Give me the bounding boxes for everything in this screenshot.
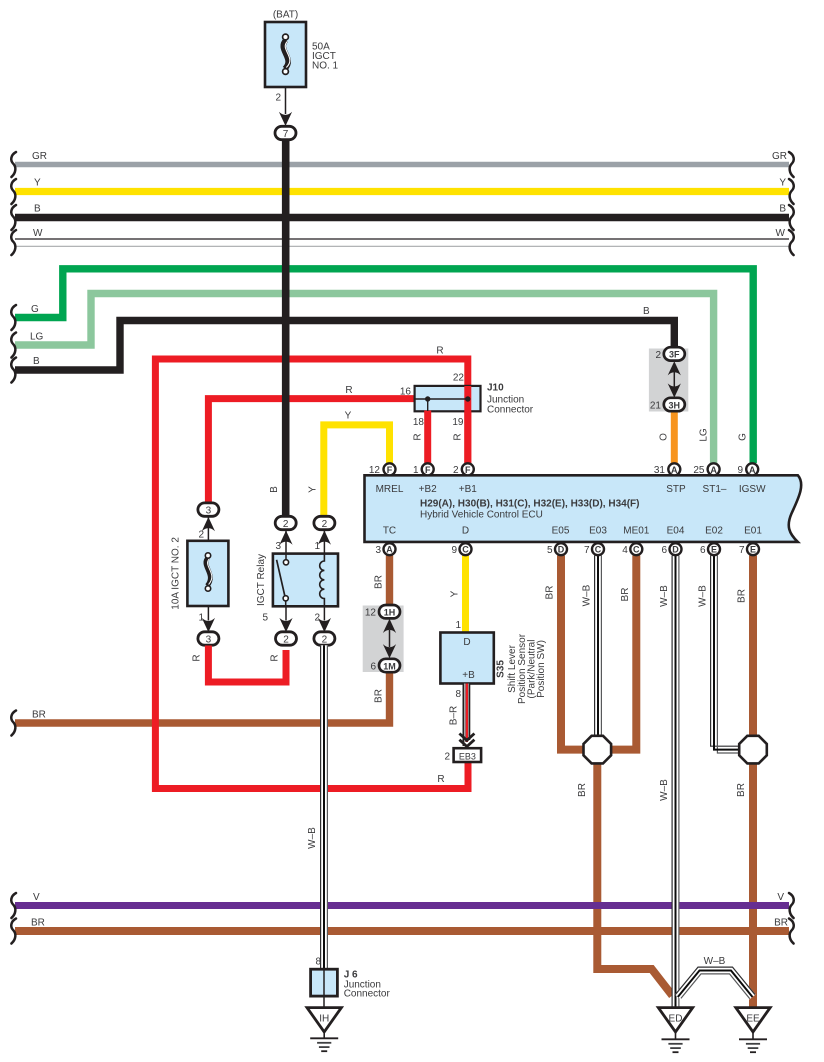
svg-text:V: V [33,892,40,903]
svg-text:IGCT Relay: IGCT Relay [256,554,267,606]
svg-text:3: 3 [206,634,212,645]
pin 1 F +B2 [413,463,434,476]
svg-text:R: R [453,433,464,440]
svg-text:LG: LG [699,428,710,442]
bus B [11,204,793,231]
pin 7 E E01 [739,543,759,556]
svg-text:R: R [413,433,424,440]
svg-text:EB3: EB3 [459,752,476,762]
svg-text:MREL: MREL [376,484,404,495]
svg-text:W: W [776,228,786,239]
svg-text:G: G [738,433,749,441]
wire R to J10 pin 16 [208,399,414,504]
junction connector J6 [311,969,391,1007]
svg-text:Position SW): Position SW) [536,640,547,698]
gray box 3F 3H [649,349,688,412]
svg-text:2: 2 [453,465,459,476]
wire G to IGSW [11,269,753,463]
svg-text:BR: BR [31,918,45,929]
bus V [11,892,793,918]
J10 internal busbar [415,396,471,411]
connector 2 relay pin2 [314,632,335,646]
wire W-B E04 to ED [672,556,679,1009]
svg-text:Y: Y [308,486,319,493]
sensor S35 shift lever position [440,633,547,705]
pin 6 D E04 [661,543,681,556]
wire B from fuse to relay [282,139,290,517]
svg-text:+B: +B [462,670,475,681]
svg-text:A: A [386,545,393,555]
svg-text:6: 6 [700,545,706,556]
svg-text:19: 19 [452,417,464,428]
svg-text:B: B [34,204,41,215]
wire W-B E02 to junction 2 [711,556,740,754]
wire BR TC to 1H [386,556,393,607]
svg-text:2: 2 [275,93,281,104]
wire B to connector 3F [11,306,674,383]
svg-text:W–B: W–B [582,584,593,606]
ECU box H29-H34 [365,475,802,542]
svg-text:Y: Y [34,178,41,189]
wire R jumper fuse to relay [208,646,286,683]
svg-text:IH: IH [319,1014,329,1025]
connector 1H [365,605,400,619]
svg-text:2: 2 [322,634,328,645]
svg-text:W–B: W–B [659,585,670,607]
wire Y D to S35 [462,556,469,633]
svg-text:A: A [710,465,717,475]
connector 3H [650,398,685,412]
svg-text:B–R: B–R [449,706,460,725]
pin 5 D E05 [547,543,567,556]
svg-text:R: R [437,774,444,785]
svg-text:12: 12 [369,465,381,476]
svg-text:ME01: ME01 [623,526,650,537]
svg-text:4: 4 [622,545,628,556]
svg-text:R: R [270,654,281,661]
svg-text:18: 18 [413,417,425,428]
svg-text:R: R [436,346,443,357]
connector 3 lower [198,632,219,646]
svg-text:BR: BR [774,918,788,929]
svg-text:D: D [558,545,565,555]
double chevron arrow [459,734,474,747]
svg-text:E: E [750,545,756,555]
svg-text:C: C [462,545,469,555]
svg-text:+B1: +B1 [459,484,478,495]
wire LG to ST1- [11,294,713,464]
ground IH [307,1008,341,1052]
svg-text:8: 8 [315,957,321,968]
svg-text:W–B: W–B [704,956,726,967]
svg-text:ED: ED [669,1014,683,1025]
svg-text:EE: EE [746,1014,760,1025]
svg-text:E01: E01 [744,526,762,537]
svg-text:NO. 1: NO. 1 [312,61,339,72]
svg-text:R: R [192,654,203,661]
svg-text:3: 3 [375,545,381,556]
svg-text:2: 2 [322,519,328,530]
svg-text:BR: BR [32,710,46,721]
connector 2 yellow [314,516,335,553]
svg-text:S35: S35 [496,660,507,678]
pin 2 F +B1 [453,463,474,476]
ground ED [658,1008,692,1053]
svg-text:GR: GR [772,151,787,162]
svg-text:8: 8 [455,689,461,700]
svg-text:1: 1 [198,612,204,623]
connector EB3 [444,748,481,762]
wire O 3H to STP [671,412,678,464]
gray box 1H 1M [363,606,404,673]
bus BR [11,918,793,944]
svg-text:2: 2 [283,519,289,530]
wire R main loop [155,359,468,789]
pin 31 A STP [654,463,680,476]
connector 1M [370,659,400,673]
svg-text:B: B [643,306,650,317]
svg-text:GR: GR [32,151,47,162]
wire B-R S35 to EB3 [463,684,469,751]
svg-text:1: 1 [314,541,320,552]
wire Y MREL to relay coil [324,425,390,517]
svg-text:9: 9 [451,545,457,556]
svg-text:6: 6 [661,545,667,556]
svg-text:Connector: Connector [487,405,534,416]
wire W-B relay to J6 [321,645,328,969]
svg-text:BR: BR [374,575,385,589]
svg-text:E05: E05 [552,526,570,537]
svg-text:1: 1 [413,465,419,476]
wire BR E05 to junction [561,556,584,750]
svg-text:A: A [671,465,678,475]
svg-text:Y: Y [345,411,352,422]
svg-text:2: 2 [198,529,204,540]
svg-text:Connector: Connector [344,989,391,1000]
svg-text:IGSW: IGSW [739,484,766,495]
pin 9 A IGSW [737,463,758,476]
svg-text:12: 12 [365,608,377,619]
connector 3F [655,347,684,361]
svg-text:F: F [387,465,393,475]
junction connector J10 [400,373,534,429]
svg-text:1M: 1M [383,661,396,671]
pin 6 E E02 [700,543,720,556]
svg-text:9: 9 [737,465,743,476]
connector 3 upper [198,503,219,541]
pin 4 C ME01 [622,543,642,556]
pin 3 A TC [375,543,395,556]
pin 7 C E03 [584,543,604,556]
svg-text:F: F [425,465,431,475]
svg-text:G: G [31,304,39,315]
svg-text:7: 7 [584,545,590,556]
svg-text:W–B: W–B [307,827,318,849]
svg-text:LG: LG [30,332,44,343]
svg-text:7: 7 [739,545,745,556]
svg-text:21: 21 [650,401,662,412]
fuse 50A IGCT NO.1 [265,10,339,127]
bus GR [11,151,793,177]
svg-text:Y: Y [779,178,786,189]
svg-text:F: F [465,465,471,475]
fuse 10A IGCT NO.2 [171,537,229,632]
relay IGCT [256,554,338,633]
svg-text:O: O [659,433,670,441]
svg-text:C: C [633,545,640,555]
svg-text:E02: E02 [705,526,723,537]
pin 12 F MREL [369,463,396,476]
svg-text:6: 6 [370,662,376,673]
svg-text:(BAT): (BAT) [273,10,298,21]
svg-text:25: 25 [693,465,705,476]
svg-text:R: R [345,385,352,396]
svg-text:B: B [269,486,280,493]
svg-text:V: V [777,892,784,903]
svg-text:22: 22 [453,373,465,384]
svg-text:W–B: W–B [659,779,670,801]
junction octagon 1 [584,736,612,764]
ground EE [736,1008,770,1053]
svg-text:Hybrid Vehicle Control ECU: Hybrid Vehicle Control ECU [420,510,543,521]
svg-text:D: D [462,526,469,537]
svg-text:ST1–: ST1– [703,484,727,495]
svg-text:C: C [595,545,602,555]
svg-text:BR: BR [577,783,588,797]
svg-text:B: B [779,204,786,215]
svg-text:Y: Y [450,590,461,597]
wire BR E01 to EE [749,556,757,1009]
connector 2 black [275,516,296,553]
svg-text:2: 2 [444,752,450,763]
connector 7 [275,126,296,140]
svg-text:3: 3 [275,541,281,552]
svg-text:1: 1 [455,620,461,631]
wire BR 1M to left break [11,672,389,736]
svg-text:5: 5 [547,545,553,556]
svg-text:H29(A), H30(B), H31(C), H32(E): H29(A), H30(B), H31(C), H32(E), H33(D), … [420,499,639,510]
svg-text:7: 7 [283,129,289,140]
svg-text:W–B: W–B [698,585,709,607]
svg-text:5: 5 [262,612,268,623]
svg-text:2: 2 [655,350,661,361]
wire R J10 pin19 crossing [464,386,471,463]
svg-text:10A IGCT NO. 2: 10A IGCT NO. 2 [171,537,182,610]
svg-text:BR: BR [620,588,631,602]
svg-text:A: A [749,465,756,475]
svg-text:2: 2 [314,612,320,623]
svg-text:BR: BR [737,589,748,603]
wire BR junction down to ED [597,763,672,996]
svg-text:1H: 1H [384,608,396,618]
wire R J10 pin18 to +B2 [424,411,431,464]
svg-text:E: E [711,545,717,555]
wire BR ME01 to junction [611,556,636,750]
svg-text:16: 16 [400,387,412,398]
connector 2 relay pin5 [276,632,297,646]
pin 9 C D [451,543,471,556]
svg-text:E04: E04 [667,526,685,537]
bus W [11,228,793,255]
pin 25 A ST1- [693,463,719,476]
junction octagon 2 [739,736,767,764]
svg-text:D: D [672,545,679,555]
svg-text:D: D [463,637,470,648]
svg-text:3: 3 [206,505,212,516]
svg-text:3H: 3H [669,400,681,410]
svg-text:STP: STP [666,484,686,495]
svg-text:J10: J10 [487,383,504,394]
svg-text:+B2: +B2 [419,484,438,495]
svg-text:BR: BR [736,783,747,797]
svg-text:TC: TC [383,526,396,537]
wire W-B arc ED to EE [675,956,755,999]
svg-text:3F: 3F [669,350,680,360]
wire W-B E03 to junction [595,556,602,738]
svg-text:31: 31 [654,465,666,476]
svg-text:BR: BR [374,689,385,703]
svg-text:B: B [33,356,40,367]
svg-text:BR: BR [545,586,556,600]
svg-text:E03: E03 [589,526,607,537]
svg-text:W: W [33,228,43,239]
svg-text:2: 2 [283,634,289,645]
bus Y [11,178,793,205]
